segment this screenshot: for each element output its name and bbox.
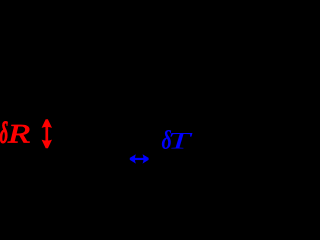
arrow for δT (blue horizontal double-headed) <box>130 154 149 163</box>
label δT : glyph δ (blue) <box>162 126 172 155</box>
label δT : glyph T (blue) <box>168 129 194 155</box>
svg-text:T: T <box>168 129 194 155</box>
arrow for δR (red vertical double-headed) <box>42 119 52 148</box>
label δR : glyph δ (red) <box>0 118 8 150</box>
label δR : glyph R (red) <box>7 119 30 148</box>
svg-text:δ: δ <box>0 118 8 150</box>
svg-text:R: R <box>7 119 30 148</box>
